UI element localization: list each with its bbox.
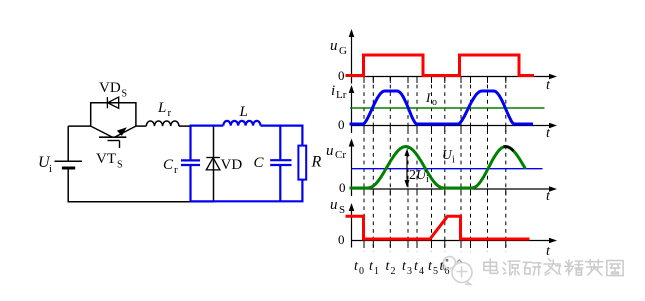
diode VD (freewheel, black) [206, 158, 220, 170]
svg-text:r: r [174, 164, 178, 176]
u_G axes [351, 31, 353, 84]
svg-text:2U: 2U [409, 168, 427, 183]
wire: R branch [301, 125, 303, 146]
svg-text:3: 3 [407, 266, 412, 277]
svg-text:i: i [49, 163, 52, 175]
svg-text:u: u [326, 143, 334, 159]
inductor L [223, 121, 260, 126]
wire: L to right corner [261, 124, 303, 126]
battery U_i plates [55, 161, 83, 168]
u_Cr axes [351, 141, 353, 197]
2U_i arrow [406, 152, 408, 184]
wire: bottom blue [190, 200, 304, 202]
u_G waveform (red) [346, 55, 535, 76]
svg-text:5: 5 [433, 266, 438, 277]
watermark logo (two chat bubbles) [444, 257, 473, 285]
I_o green line [350, 107, 545, 109]
svg-text:o: o [432, 97, 437, 108]
u_Cr waveform (green) [350, 147, 526, 189]
svg-text:i: i [452, 155, 455, 166]
svg-text:S: S [122, 89, 128, 100]
axes [352, 31, 554, 248]
svg-text:S: S [339, 204, 345, 216]
wire: left rail upper [67, 126, 69, 161]
watermark text 电源研发精英圈 (approximated strokes) [484, 259, 623, 276]
dashed time lines [363, 77, 365, 252]
capacitor Cr plates [181, 159, 200, 161]
wire: C branch [279, 126, 281, 160]
svg-text:u: u [330, 197, 338, 213]
wire: Lr to blue node [179, 125, 191, 127]
svg-text:0: 0 [339, 180, 346, 195]
i_Lr axes [351, 87, 353, 133]
diode VDs (on bypass) [107, 97, 118, 108]
wire: diode bypass loop [91, 103, 136, 126]
svg-text:i: i [426, 174, 429, 185]
transistor arrow [117, 127, 127, 136]
wire: Cr branch [189, 125, 191, 160]
svg-text:0: 0 [338, 232, 345, 247]
svg-text:C: C [163, 157, 174, 173]
svg-text:G: G [339, 45, 347, 57]
svg-text:S: S [117, 160, 123, 171]
svg-text:0: 0 [338, 68, 345, 83]
svg-text:1: 1 [374, 266, 379, 277]
black cap on u_Cr second peak [504, 147, 514, 151]
wire: main line to Lr [136, 125, 146, 127]
svg-text:L: L [157, 100, 166, 116]
baseline ticks [363, 77, 365, 84]
u_S axes [351, 205, 353, 248]
inductor Lr [146, 121, 179, 126]
svg-text:0: 0 [359, 266, 364, 277]
resistor R body [298, 146, 306, 180]
wire: left rail lower [67, 168, 69, 202]
svg-text:VD: VD [221, 157, 243, 173]
svg-text:Cr: Cr [335, 149, 346, 161]
svg-text:u: u [330, 38, 338, 54]
svg-text:I: I [425, 90, 431, 105]
wire: bottom black [68, 201, 215, 203]
svg-text:C: C [254, 155, 265, 171]
svg-text:L: L [239, 104, 248, 120]
U_i blue line [352, 168, 543, 170]
wire: top blue [190, 124, 224, 126]
svg-text:R: R [311, 154, 322, 171]
svg-text:r: r [168, 107, 172, 119]
wire: VD branch vertical [213, 126, 215, 202]
u_S waveform (red) [346, 216, 530, 239]
capacitor C plates [270, 159, 291, 161]
wire: top left from battery to transistor [68, 125, 91, 127]
axis arrowheads [349, 29, 557, 243]
svg-text:VT: VT [96, 151, 116, 167]
svg-text:2: 2 [391, 266, 396, 277]
svg-text:Lr: Lr [336, 89, 347, 101]
transistor VTs [91, 126, 136, 148]
svg-text:VD: VD [99, 80, 121, 96]
i_Lr waveform (blue) [350, 91, 534, 124]
svg-text:4: 4 [419, 266, 424, 277]
svg-text:0: 0 [338, 117, 345, 132]
svg-text:i: i [331, 83, 335, 99]
